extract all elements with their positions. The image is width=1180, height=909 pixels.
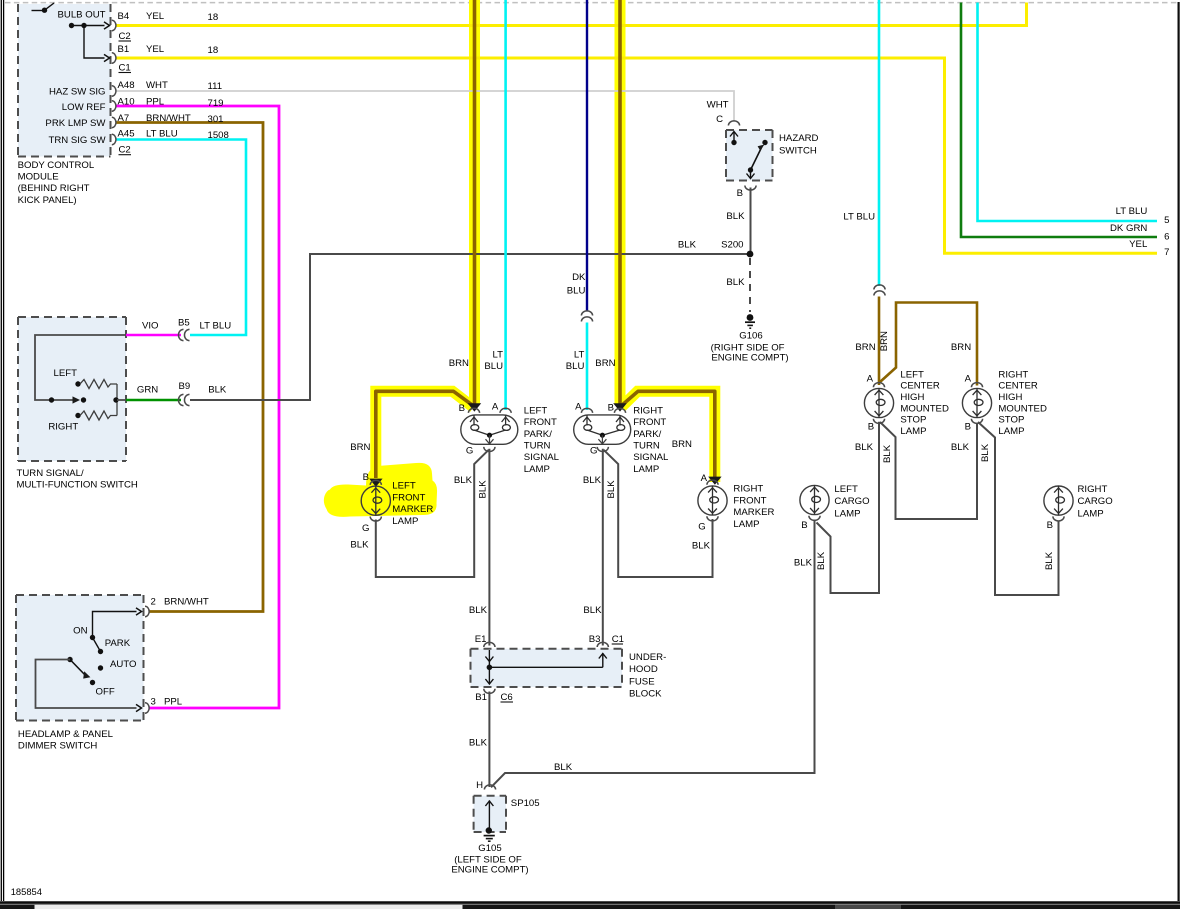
svg-text:LOW REF: LOW REF bbox=[62, 102, 106, 113]
svg-text:BLK: BLK bbox=[678, 240, 697, 251]
lamp right cargo bbox=[1044, 486, 1073, 515]
dimmer internal pin3 wire bbox=[36, 660, 137, 709]
hazard B terminal bbox=[745, 186, 756, 191]
wire BLK right park/turn G to fuse B3 bbox=[602, 449, 604, 646]
splice S200 bbox=[747, 251, 754, 258]
svg-text:A45: A45 bbox=[118, 129, 135, 140]
svg-text:A: A bbox=[867, 373, 874, 384]
inline connector LT BLU / BRN bbox=[874, 285, 885, 290]
hazard internals bbox=[730, 132, 738, 137]
svg-text:S200: S200 bbox=[721, 240, 743, 251]
lamp right front park/turn signal bbox=[574, 415, 631, 444]
wire YEL 18 from BCM B4 bbox=[117, 3, 1027, 26]
svg-text:YEL: YEL bbox=[1129, 239, 1148, 250]
svg-text:BRN/WHT: BRN/WHT bbox=[164, 597, 209, 608]
dimmer switch box bbox=[16, 595, 144, 721]
wire BLK right marker ground to right park/turn G bbox=[604, 450, 713, 577]
lamp left center high mounted stop bbox=[873, 383, 884, 388]
svg-text:BLK: BLK bbox=[350, 539, 369, 550]
svg-text:RIGHT: RIGHT bbox=[48, 422, 78, 433]
svg-text:BLK: BLK bbox=[726, 277, 745, 288]
wire BRN/WHT 301 from BCM A7 to dimmer switch pin 2 bbox=[117, 123, 264, 612]
svg-text:MOUNTED: MOUNTED bbox=[900, 403, 949, 414]
svg-text:RIGHT: RIGHT bbox=[998, 369, 1028, 380]
wire BLK left marker ground to left park/turn G bbox=[376, 450, 489, 577]
wire LT BLU to right park/turn lamp A bbox=[586, 323, 589, 411]
svg-text:LAMP: LAMP bbox=[834, 508, 860, 519]
wire BRN highlighted branch to left marker lamp bbox=[376, 391, 474, 478]
svg-text:LAMP: LAMP bbox=[900, 426, 926, 437]
svg-text:B: B bbox=[459, 403, 465, 414]
svg-text:LEFT: LEFT bbox=[834, 484, 858, 495]
svg-text:SP105: SP105 bbox=[511, 798, 540, 809]
svg-text:BULB OUT: BULB OUT bbox=[58, 10, 106, 21]
svg-text:C1: C1 bbox=[612, 634, 624, 645]
svg-text:BLK: BLK bbox=[208, 385, 227, 396]
svg-text:185854: 185854 bbox=[11, 886, 42, 897]
svg-text:B1: B1 bbox=[475, 692, 487, 703]
svg-text:A: A bbox=[701, 473, 708, 484]
svg-text:BLK: BLK bbox=[794, 558, 813, 569]
lamp right center high mounted stop bbox=[971, 383, 982, 388]
wire DK BLU from top bbox=[586, 0, 588, 312]
svg-text:MOUNTED: MOUNTED bbox=[998, 403, 1047, 414]
wire BRN highlighted to left park/turn lamp B bbox=[473, 0, 477, 405]
svg-text:G: G bbox=[362, 523, 369, 534]
dimmer internal pin2 wire bbox=[93, 612, 137, 638]
svg-text:2: 2 bbox=[151, 597, 156, 608]
svg-text:111: 111 bbox=[208, 81, 223, 92]
svg-text:C1: C1 bbox=[119, 62, 131, 73]
svg-text:A48: A48 bbox=[118, 80, 135, 91]
svg-text:BRN: BRN bbox=[595, 358, 615, 369]
svg-text:BLK: BLK bbox=[454, 475, 473, 486]
svg-text:BLK: BLK bbox=[583, 475, 602, 486]
svg-text:BRN: BRN bbox=[879, 331, 890, 351]
svg-text:BRN/WHT: BRN/WHT bbox=[146, 113, 191, 124]
svg-text:BLK: BLK bbox=[951, 442, 970, 453]
svg-text:A: A bbox=[575, 402, 582, 413]
hazard switch box bbox=[726, 130, 773, 181]
page border left double line bbox=[0, 0, 2, 901]
svg-text:BLK: BLK bbox=[554, 762, 573, 773]
underhood fuse block box bbox=[471, 649, 623, 687]
fuse block internals bbox=[488, 650, 490, 665]
BCM bulb out node bbox=[69, 23, 74, 28]
svg-text:BRN: BRN bbox=[449, 358, 469, 369]
turn signal output node bbox=[116, 384, 118, 416]
highlighter band left BRN vertical bbox=[469, 0, 480, 404]
wire WHT 111 from BCM A48 to hazard switch bbox=[117, 91, 735, 122]
ground G105 bbox=[484, 835, 495, 837]
svg-text:B3: B3 bbox=[589, 634, 601, 645]
svg-text:CENTER: CENTER bbox=[998, 381, 1038, 392]
svg-text:B5: B5 bbox=[178, 317, 190, 328]
wire BLK left stop B to left cargo B bbox=[817, 422, 880, 593]
svg-text:B: B bbox=[363, 472, 369, 483]
svg-text:LAMP: LAMP bbox=[633, 464, 659, 475]
svg-text:BRN: BRN bbox=[672, 439, 692, 450]
svg-text:B: B bbox=[965, 421, 971, 432]
svg-text:HIGH: HIGH bbox=[900, 392, 924, 403]
svg-text:HAZ SW SIG: HAZ SW SIG bbox=[49, 87, 106, 98]
wire BLK dashed S200 to G106 bbox=[749, 258, 751, 312]
resistor RIGHT bbox=[75, 413, 80, 418]
svg-text:C2: C2 bbox=[119, 31, 131, 42]
lamp left cargo bbox=[800, 485, 829, 514]
svg-text:MARKER: MARKER bbox=[733, 507, 774, 518]
svg-text:E1: E1 bbox=[475, 634, 487, 645]
svg-text:LEFT: LEFT bbox=[392, 481, 416, 492]
wire VIO bbox=[126, 334, 181, 337]
svg-text:STOP: STOP bbox=[998, 415, 1024, 426]
svg-text:1508: 1508 bbox=[208, 130, 229, 141]
svg-text:18: 18 bbox=[208, 45, 219, 56]
svg-text:BLK: BLK bbox=[855, 442, 874, 453]
svg-text:WHT: WHT bbox=[146, 80, 168, 91]
svg-text:BLK: BLK bbox=[477, 480, 488, 499]
svg-text:LAMP: LAMP bbox=[392, 516, 418, 527]
svg-text:RIGHT: RIGHT bbox=[1078, 484, 1108, 495]
page border right bbox=[1177, 2, 1179, 901]
inline connector DK BLU / LT BLU bbox=[581, 311, 592, 316]
svg-text:HEADLAMP & PANEL: HEADLAMP & PANEL bbox=[18, 729, 114, 740]
wire LT BLU to left park/turn lamp A bbox=[504, 0, 507, 410]
svg-text:A10: A10 bbox=[118, 97, 135, 108]
svg-text:LAMP: LAMP bbox=[1078, 508, 1104, 519]
highlighter band left marker branch bbox=[376, 391, 474, 483]
svg-text:GRN: GRN bbox=[137, 385, 158, 396]
svg-text:RIGHT: RIGHT bbox=[633, 405, 663, 416]
svg-text:B1: B1 bbox=[118, 44, 130, 55]
wire BLK from connector B9 to splice S200 bbox=[190, 254, 747, 400]
svg-text:B: B bbox=[608, 403, 614, 414]
svg-text:BLK: BLK bbox=[980, 443, 991, 462]
svg-text:B: B bbox=[801, 520, 807, 531]
BCM pin arcs bbox=[112, 20, 116, 30]
bottom scrollbar track bbox=[0, 904, 1180, 909]
wire BLK B1 to SP105 H bbox=[488, 692, 490, 788]
svg-text:C2: C2 bbox=[119, 145, 131, 156]
svg-text:(BEHIND RIGHT: (BEHIND RIGHT bbox=[18, 183, 90, 194]
svg-text:PARK/: PARK/ bbox=[633, 429, 661, 440]
svg-text:LEFT: LEFT bbox=[900, 369, 924, 380]
svg-text:LEFT: LEFT bbox=[524, 405, 548, 416]
svg-text:LAMP: LAMP bbox=[733, 519, 759, 530]
wire LT BLU to right edge 5 bbox=[978, 3, 1158, 222]
svg-text:G: G bbox=[466, 446, 473, 457]
svg-text:BRN: BRN bbox=[855, 342, 875, 353]
svg-text:LT BLU: LT BLU bbox=[1116, 206, 1148, 217]
svg-text:301: 301 bbox=[208, 114, 224, 125]
svg-text:TURN: TURN bbox=[633, 440, 660, 451]
wire LT BLU 1508 from BCM A45 to connector B5 bbox=[117, 140, 247, 336]
wire GRN bbox=[126, 399, 181, 402]
connector B9 bbox=[178, 394, 183, 405]
svg-text:MULTI-FUNCTION SWITCH: MULTI-FUNCTION SWITCH bbox=[17, 480, 138, 491]
svg-text:G: G bbox=[590, 446, 597, 457]
svg-text:STOP: STOP bbox=[900, 415, 926, 426]
svg-text:RIGHT: RIGHT bbox=[733, 484, 763, 495]
svg-text:G: G bbox=[698, 522, 705, 533]
svg-text:6: 6 bbox=[1164, 232, 1169, 243]
svg-text:BLK: BLK bbox=[692, 541, 711, 552]
resistor LEFT bbox=[75, 381, 80, 386]
svg-text:C: C bbox=[716, 114, 723, 125]
svg-text:B: B bbox=[737, 188, 743, 199]
wire BLK left stop B to right stop B bbox=[880, 422, 977, 519]
wire BRN highlighted branch to right marker lamp bbox=[621, 391, 715, 477]
svg-text:BLK: BLK bbox=[1044, 551, 1055, 570]
svg-text:B9: B9 bbox=[179, 381, 191, 392]
svg-text:BLOCK: BLOCK bbox=[629, 689, 662, 700]
svg-text:5: 5 bbox=[1164, 215, 1169, 226]
svg-text:HOOD: HOOD bbox=[629, 664, 658, 675]
svg-text:LEFT: LEFT bbox=[54, 368, 78, 379]
svg-text:C6: C6 bbox=[501, 692, 513, 703]
svg-text:LT: LT bbox=[493, 349, 504, 360]
svg-text:FRONT: FRONT bbox=[633, 417, 666, 428]
svg-text:WHT: WHT bbox=[707, 100, 729, 111]
svg-text:LT BLU: LT BLU bbox=[843, 212, 875, 223]
svg-text:SIGNAL: SIGNAL bbox=[524, 452, 560, 463]
svg-text:TURN SIGNAL/: TURN SIGNAL/ bbox=[17, 468, 85, 479]
svg-text:YEL: YEL bbox=[146, 44, 165, 55]
wire BLK left cargo B to SP105 bbox=[491, 520, 815, 788]
svg-text:DIMMER SWITCH: DIMMER SWITCH bbox=[18, 741, 97, 752]
ground G106 bbox=[747, 314, 754, 321]
svg-text:FRONT: FRONT bbox=[392, 492, 425, 503]
svg-text:UNDER-: UNDER- bbox=[629, 652, 666, 663]
svg-text:YEL: YEL bbox=[146, 11, 165, 22]
svg-text:G106: G106 bbox=[739, 331, 762, 342]
svg-text:HIGH: HIGH bbox=[998, 392, 1022, 403]
svg-text:BLK: BLK bbox=[583, 605, 602, 616]
svg-text:HAZARD: HAZARD bbox=[779, 133, 819, 144]
wire BLK hazard to S200 bbox=[750, 188, 752, 252]
svg-text:FRONT: FRONT bbox=[733, 495, 766, 506]
wire PPL 719 from BCM A10 to dimmer switch pin 3 bbox=[117, 106, 280, 708]
arrowhead at right park/turn B bbox=[613, 403, 627, 411]
svg-text:BLU: BLU bbox=[566, 361, 585, 372]
arrowhead at right marker lamp A bbox=[708, 477, 721, 485]
svg-text:CENTER: CENTER bbox=[900, 381, 940, 392]
svg-text:LAMP: LAMP bbox=[998, 426, 1024, 437]
svg-text:FRONT: FRONT bbox=[524, 417, 557, 428]
dimmer contacts bbox=[90, 635, 95, 640]
wire LT BLU stop lamp feed bbox=[878, 0, 881, 286]
svg-text:CARGO: CARGO bbox=[834, 496, 869, 507]
wire BRN highlighted to right park/turn lamp B bbox=[618, 0, 622, 405]
BCM internal switch fragment bbox=[32, 10, 45, 12]
wire BLK right stop B to right cargo B bbox=[978, 422, 1059, 595]
svg-text:B: B bbox=[1047, 520, 1053, 531]
highlighter band right marker branch bbox=[621, 391, 715, 482]
wire YEL 18 from BCM B1 to right edge 7 bbox=[117, 58, 1158, 253]
arrowhead at left marker lamp B bbox=[369, 479, 382, 487]
dimmer wiper bbox=[67, 657, 72, 662]
connector B5 bbox=[178, 329, 183, 340]
svg-text:LT: LT bbox=[574, 349, 585, 360]
svg-text:BLK: BLK bbox=[882, 444, 893, 463]
svg-text:BODY CONTROL: BODY CONTROL bbox=[18, 160, 95, 171]
page border top dashed bbox=[5, 2, 1178, 4]
svg-text:TRN SIG SW: TRN SIG SW bbox=[48, 135, 106, 146]
svg-text:PARK: PARK bbox=[105, 638, 131, 649]
svg-text:MARKER: MARKER bbox=[392, 504, 433, 515]
body control module box bbox=[18, 4, 111, 157]
svg-text:3: 3 bbox=[151, 697, 156, 708]
svg-text:PRK LMP SW: PRK LMP SW bbox=[45, 118, 106, 129]
svg-text:G105: G105 bbox=[478, 843, 501, 854]
svg-text:LT BLU: LT BLU bbox=[146, 129, 178, 140]
turn signal internal feed wire bbox=[35, 335, 126, 400]
lamp left front park/turn signal bbox=[461, 415, 518, 444]
turn signal switch box bbox=[18, 317, 126, 461]
highlighter blob around left front marker lamp bbox=[324, 463, 437, 517]
wire BRN to center stop lamps bbox=[878, 297, 881, 386]
svg-text:BLU: BLU bbox=[484, 361, 503, 372]
BCM wire to pin B1 bbox=[84, 26, 105, 59]
svg-text:7: 7 bbox=[1164, 247, 1169, 258]
svg-text:BLK: BLK bbox=[469, 738, 488, 749]
svg-text:SIGNAL: SIGNAL bbox=[633, 452, 669, 463]
svg-text:ENGINE COMPT): ENGINE COMPT) bbox=[711, 353, 788, 364]
svg-text:SWITCH: SWITCH bbox=[779, 145, 817, 156]
svg-text:BLU: BLU bbox=[567, 286, 586, 297]
svg-text:FUSE: FUSE bbox=[629, 676, 655, 687]
svg-text:B4: B4 bbox=[118, 11, 130, 22]
lamp right front marker bbox=[707, 480, 718, 485]
svg-text:OFF: OFF bbox=[96, 687, 115, 698]
svg-text:LT BLU: LT BLU bbox=[200, 321, 232, 332]
svg-text:DK: DK bbox=[572, 272, 586, 283]
svg-text:LAMP: LAMP bbox=[524, 464, 550, 475]
svg-text:BRN: BRN bbox=[951, 342, 971, 353]
svg-text:AUTO: AUTO bbox=[110, 659, 136, 670]
svg-text:B: B bbox=[868, 421, 874, 432]
svg-text:PPL: PPL bbox=[146, 97, 165, 108]
svg-text:A7: A7 bbox=[118, 113, 130, 124]
page border bottom bbox=[0, 901, 1180, 904]
svg-text:TURN: TURN bbox=[524, 440, 551, 451]
svg-text:CARGO: CARGO bbox=[1078, 496, 1113, 507]
svg-text:KICK PANEL): KICK PANEL) bbox=[18, 195, 77, 206]
svg-text:A: A bbox=[492, 402, 499, 413]
svg-text:BLK: BLK bbox=[606, 480, 617, 499]
svg-text:BLK: BLK bbox=[726, 211, 745, 222]
highlighter band right BRN vertical bbox=[615, 0, 626, 404]
svg-text:ON: ON bbox=[73, 626, 87, 637]
lamp left front marker bbox=[370, 480, 381, 485]
svg-text:18: 18 bbox=[208, 12, 219, 23]
svg-text:ENGINE COMPT): ENGINE COMPT) bbox=[451, 865, 528, 876]
svg-text:A: A bbox=[965, 373, 972, 384]
svg-text:DK GRN: DK GRN bbox=[1110, 223, 1147, 234]
svg-text:BRN: BRN bbox=[350, 442, 370, 453]
wire DK GRN to right edge 6 bbox=[961, 3, 1157, 238]
svg-text:VIO: VIO bbox=[142, 321, 159, 332]
svg-text:PARK/: PARK/ bbox=[524, 429, 552, 440]
arrowhead at left park/turn B bbox=[468, 403, 482, 411]
svg-text:H: H bbox=[476, 780, 483, 791]
svg-text:719: 719 bbox=[208, 98, 224, 109]
svg-text:PPL: PPL bbox=[164, 697, 183, 708]
svg-text:BLK: BLK bbox=[469, 605, 488, 616]
wire BLK left park/turn G to fuse E1 bbox=[488, 449, 490, 646]
svg-text:MODULE: MODULE bbox=[18, 172, 59, 183]
svg-text:BLK: BLK bbox=[816, 551, 827, 570]
